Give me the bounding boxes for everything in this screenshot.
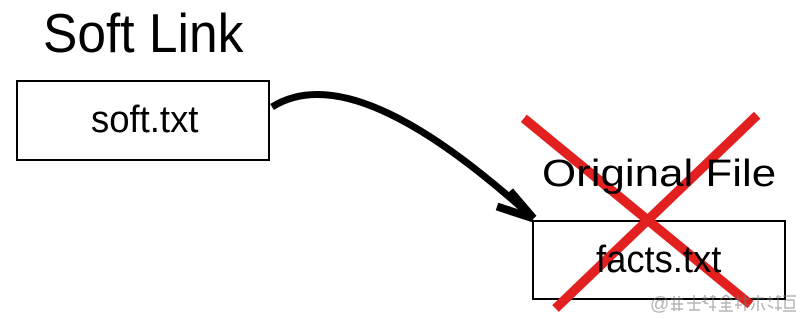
svg-text:@: @ — [650, 294, 669, 315]
